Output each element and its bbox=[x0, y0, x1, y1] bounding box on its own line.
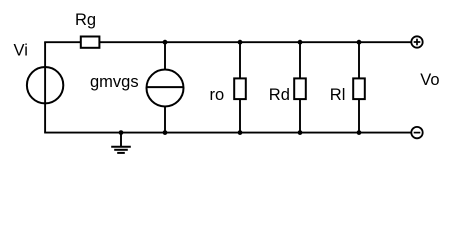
svg-text:Rg: Rg bbox=[75, 11, 96, 29]
svg-text:Vo: Vo bbox=[420, 71, 439, 89]
svg-text:Vi: Vi bbox=[14, 42, 28, 60]
svg-text:Rl: Rl bbox=[330, 86, 346, 104]
svg-text:ro: ro bbox=[210, 86, 225, 104]
svg-text:gmvgs: gmvgs bbox=[90, 73, 139, 91]
svg-text:Rd: Rd bbox=[269, 86, 290, 104]
